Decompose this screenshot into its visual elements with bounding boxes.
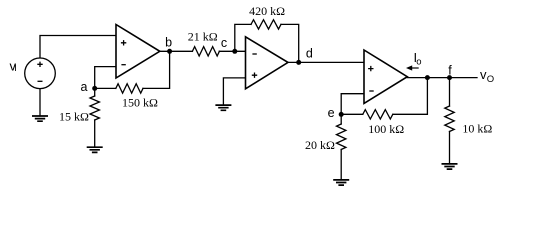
svg-text:b: b <box>165 35 172 49</box>
svg-text:100 kΩ: 100 kΩ <box>368 122 404 136</box>
svg-text:f: f <box>448 63 452 77</box>
svg-text:I: I <box>14 63 17 74</box>
svg-text:21 kΩ: 21 kΩ <box>188 30 218 44</box>
svg-text:d: d <box>306 47 313 61</box>
svg-text:c: c <box>221 36 227 50</box>
svg-text:a: a <box>81 80 88 94</box>
svg-text:15 kΩ: 15 kΩ <box>59 110 89 124</box>
svg-text:o: o <box>416 57 421 68</box>
svg-text:e: e <box>328 106 335 120</box>
svg-text:20 kΩ: 20 kΩ <box>305 138 335 152</box>
svg-text:420 kΩ: 420 kΩ <box>249 4 285 18</box>
svg-text:O: O <box>487 74 494 85</box>
svg-text:150 kΩ: 150 kΩ <box>122 96 158 110</box>
svg-text:10 kΩ: 10 kΩ <box>462 121 492 135</box>
